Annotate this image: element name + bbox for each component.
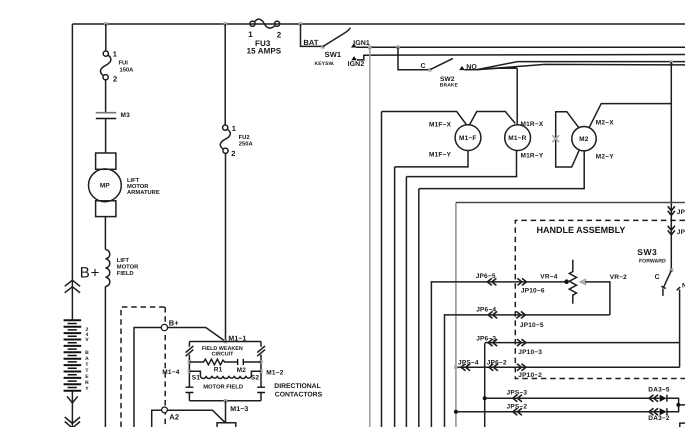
inductor MOTOR FIELD with S1 S2 terminals: [189, 371, 261, 378]
svg-text:FU2: FU2: [239, 134, 250, 141]
svg-text:M2: M2: [579, 136, 589, 143]
off-page connector chevrons on left rail: [65, 280, 80, 293]
svg-text:DA3−5: DA3−5: [648, 387, 670, 394]
resistor R1: [189, 359, 237, 365]
svg-text:15 AMPS: 15 AMPS: [247, 46, 282, 55]
node: dot R1 branch right: [259, 360, 263, 364]
svg-text:FORWARD: FORWARD: [639, 258, 666, 264]
wire: SW2 feed from IGN1 line: [398, 47, 430, 70]
svg-text:M1−F: M1−F: [459, 135, 477, 142]
wire: corner1 vertical to bottom edge: [381, 112, 383, 427]
svg-text:FUI: FUI: [119, 61, 129, 67]
svg-text:DA3−2: DA3−2: [648, 415, 670, 422]
switch SW3 NO contact: [677, 287, 681, 367]
wire: A2 node feed left corner: [152, 410, 162, 427]
fuse FU2 250A: [223, 125, 228, 130]
svg-text:IGN1: IGN1: [353, 40, 370, 47]
svg-text:JP10−3: JP10−3: [518, 349, 542, 356]
wire: rail below battery: [71, 391, 73, 427]
motor MP lift motor armature (brush boxes and body): [96, 153, 116, 169]
box: component at bottom edge (clipped): [217, 423, 236, 427]
contact M2 (in field weaken branch): [238, 359, 244, 365]
node: junction dot FUI tap: [104, 22, 108, 26]
svg-text:S1: S1: [192, 374, 201, 381]
node: B+ terminal circle: [161, 324, 167, 330]
svg-text:CONTACTORS: CONTACTORS: [275, 392, 323, 399]
connector JP6-5 chevron: [487, 278, 496, 285]
svg-text:LIFT: LIFT: [117, 258, 130, 264]
contact M1-2 slashes (right top): [257, 346, 265, 356]
fuse FU3 15 AMPS (on top bus): [250, 21, 255, 26]
connector JP6-3 chevron: [488, 339, 497, 346]
svg-text:M1F−Y: M1F−Y: [429, 152, 452, 159]
connector JP6-4 chevron: [488, 311, 497, 318]
svg-text:SW1: SW1: [325, 50, 342, 59]
contact M1-3 bars (right bottom): [257, 387, 265, 392]
svg-text:1: 1: [232, 124, 236, 133]
svg-text:150A: 150A: [120, 67, 135, 74]
node: black dot VR-4 junction: [564, 279, 569, 284]
wire: diode common stub to right edge: [679, 404, 685, 406]
svg-text:MOTOR: MOTOR: [117, 264, 139, 271]
svg-text:C: C: [421, 63, 426, 70]
svg-text:250A: 250A: [239, 141, 254, 148]
wire: FUI to M3 contact: [105, 80, 107, 112]
wire: FU2 down to field weaken circuit: [225, 153, 227, 341]
wire: corner3 vertical to bottom edge: [405, 177, 407, 427]
label 24V (vertical): [85, 327, 89, 343]
node: dot right bus to JP drop: [670, 60, 674, 64]
node: dot IGN1 / gray drop: [368, 45, 372, 49]
wire: BAT feed from top bus to SW1: [301, 24, 323, 46]
node: A2 terminal circle: [162, 407, 168, 413]
connector JP10-3 chevron: [517, 339, 526, 346]
dashed box HANDLE ASSEMBLY: [515, 220, 685, 378]
node: dot IGN1 / SW2 drop: [396, 45, 400, 49]
node: junction dot FU2 tap: [223, 22, 227, 26]
svg-text:M2−Y: M2−Y: [596, 154, 614, 161]
wire: NO fan line 2 to right edge: [477, 64, 685, 69]
connector DA3-2 chevron: [649, 408, 658, 415]
wire: M2 X wing up to right drop: [589, 104, 672, 129]
wire: DA3-5 to common: [667, 398, 679, 412]
svg-text:M1−R: M1−R: [508, 135, 526, 142]
svg-text:M2: M2: [237, 367, 247, 374]
contact M3 (pump contactor): [96, 112, 116, 114]
svg-text:M1R−Y: M1R−Y: [521, 153, 544, 160]
wire: NO fan line 1 to right edge: [465, 62, 685, 70]
wiper arrow VR-2: [579, 279, 586, 285]
svg-text:JP6−5: JP6−5: [476, 273, 496, 280]
wire: corner5 horizontal to right edge: [456, 202, 685, 204]
connector JP6-2 chevron: [489, 364, 498, 371]
battery BT1 24V (plates): [64, 320, 82, 390]
svg-text:1: 1: [248, 30, 253, 39]
svg-text:MP: MP: [100, 183, 111, 190]
arrowhead on battery negative lead: [67, 396, 78, 403]
node: black dot JPS-2 tap: [454, 410, 458, 414]
terminal triangle IGN2: [351, 56, 357, 60]
wire: main top bus B+ rail: [72, 23, 685, 25]
svg-text:B+: B+: [169, 319, 180, 328]
svg-text:2: 2: [231, 149, 235, 158]
wire: corner5 gray wire to right edge and bottom edge: [455, 203, 457, 427]
wire: M1-R Y lead down then left (corner3): [406, 150, 516, 176]
svg-text:M2−X: M2−X: [596, 120, 614, 127]
off-page connector chevrons bottom of battery rail: [65, 417, 80, 427]
svg-text:JPS−2: JPS−2: [507, 404, 528, 411]
wire: IGN2 line to right edge: [357, 55, 685, 60]
svg-text:A2: A2: [169, 413, 179, 422]
switch SW2 blade: [431, 58, 453, 69]
wire: JP6-5 / JP10-6 line (corner to VR-4): [431, 282, 564, 427]
connector JPS-4 chevron: [461, 364, 470, 371]
svg-text:VR−4: VR−4: [540, 274, 557, 281]
switch SW3 FORWARD common dot: [670, 268, 674, 272]
node: dot S1: [188, 370, 192, 374]
svg-text:V: V: [85, 337, 89, 343]
svg-text:SW3: SW3: [637, 247, 657, 257]
svg-text:IGN2: IGN2: [348, 61, 365, 68]
svg-text:DIRECTIONAL: DIRECTIONAL: [274, 383, 320, 390]
wire: M2 Y lead down then left (corner4): [419, 151, 584, 189]
svg-text:MOTOR: MOTOR: [127, 183, 149, 190]
svg-text:LIFT: LIFT: [127, 178, 140, 184]
node: black dot diode common: [676, 403, 680, 407]
svg-text:JP10−5: JP10−5: [520, 322, 544, 329]
contactor coil M1-F: [455, 125, 481, 151]
connector JP10-5 chevron: [516, 311, 525, 318]
potentiometer VR (speed control): [569, 260, 576, 304]
svg-text:C: C: [655, 274, 660, 281]
connector JPS-3 chevron: [513, 395, 522, 402]
svg-text:JP6: JP6: [677, 209, 685, 216]
svg-text:BRAKE: BRAKE: [440, 82, 459, 88]
wire: JP6-2 / JP10-2 line: [456, 366, 680, 368]
diode DA3-5: [660, 395, 667, 402]
wire: corner4 vertical to bottom edge: [418, 189, 420, 427]
dashed connector boundary box (left): [121, 307, 165, 427]
wire: motor to field inductor: [104, 217, 106, 250]
svg-text:VR−2: VR−2: [610, 274, 627, 281]
node: dot R1 branch left: [188, 360, 192, 364]
svg-text:M1−3: M1−3: [230, 406, 248, 413]
svg-text:JPS−4: JPS−4: [458, 360, 479, 367]
connector JPS-2 chevron: [513, 408, 522, 415]
wire: JP6-3 / JP10-3 line to SW3 NO: [485, 343, 680, 427]
svg-text:M1−2: M1−2: [266, 369, 283, 376]
node: dot SW2 pivot: [428, 68, 432, 72]
connector JP6-1 chevron on right drop: [668, 206, 675, 215]
wire: JPS-3 line: [485, 397, 660, 399]
node: dot S2: [259, 370, 263, 374]
wire: M2 left bracket: [556, 112, 580, 167]
contact M1-4 bars (left bottom): [186, 387, 194, 392]
wire: FU2 branch from top bus: [224, 24, 226, 125]
contactor coil M1-R: [505, 125, 531, 151]
contact M1-1 slashes (left top): [186, 346, 194, 356]
svg-text:FIELD: FIELD: [117, 271, 134, 277]
svg-text:Y: Y: [85, 386, 89, 392]
connector JP10-1 chevron on right drop: [668, 226, 675, 235]
switch SW1 KEYSW. pivot dot: [321, 45, 325, 49]
wire: B+ node to field weaken circuit: [168, 328, 226, 342]
node: dot bottom of field weaken box: [224, 399, 228, 403]
svg-text:CIRCUIT: CIRCUIT: [212, 352, 235, 358]
svg-text:BAT: BAT: [303, 38, 318, 47]
wire: IGN1 line to right edge: [356, 46, 685, 48]
wire: NO fan line 3 down to M1-R: [477, 68, 517, 125]
wire: corner2 vertical to bottom edge: [394, 167, 396, 427]
connector JP10-2 chevron: [517, 364, 526, 371]
svg-text:1: 1: [113, 49, 117, 58]
svg-text:JP10−2: JP10−2: [518, 372, 542, 379]
wire: gray vertical from IGN1 line to bottom edge: [369, 47, 371, 427]
fuse FUI 150A: [103, 51, 108, 56]
diode DA3-2: [660, 408, 667, 415]
wire: JPS-2 line: [456, 411, 660, 413]
wire: M3 to motor MP: [105, 119, 107, 153]
svg-text:S2: S2: [251, 374, 260, 381]
wire: M1-F X wing from corner1: [382, 112, 467, 126]
marker: gray X on M2 bracket: [552, 135, 559, 142]
wire: JP6-4 / JP10-5 line (corner to VR wiper drop): [445, 315, 610, 427]
node: gray dot JPS-4 tap: [454, 365, 458, 369]
wire: left battery rail down from top bus: [71, 24, 73, 320]
wire: right vertical drop from brake bus to SW3: [670, 62, 672, 270]
svg-text:HANDLE ASSEMBLY: HANDLE ASSEMBLY: [537, 225, 626, 235]
inductor LIFT MOTOR FIELD: [105, 250, 109, 287]
wire: A2 node to pump box: [167, 410, 225, 423]
wire: field weaken bottom down to pump box: [225, 401, 227, 423]
terminal triangle NO (SW2): [459, 66, 465, 70]
switch SW1 blade: [323, 28, 351, 47]
label BATTERY (vertical): [85, 350, 89, 392]
node: black dot JPS-3 tap: [483, 396, 487, 400]
svg-text:JPS−3: JPS−3: [507, 390, 528, 397]
svg-text:M1−4: M1−4: [162, 369, 179, 376]
wire: M1-F Y lead down then left (corner2): [395, 151, 468, 167]
svg-text:MOTOR FIELD: MOTOR FIELD: [203, 383, 243, 390]
wire: lift motor branch from top bus: [105, 24, 107, 51]
node: dot top of field weaken box: [224, 340, 228, 344]
box: field weaken circuit outline: [189, 342, 261, 401]
svg-text:JP6−4: JP6−4: [476, 307, 496, 314]
svg-text:2: 2: [277, 31, 282, 40]
svg-text:ARMATURE: ARMATURE: [127, 190, 160, 196]
wire: B+ node feed left corner: [134, 328, 161, 427]
wire: M1-F to M1-R X link: [469, 112, 515, 126]
node: junction dot SW1 BAT tap: [299, 22, 303, 26]
connector DA3-5 chevron: [649, 395, 658, 402]
svg-text:JP1: JP1: [677, 229, 685, 236]
contactor coil M2: [572, 127, 596, 151]
terminal triangle IGN1: [351, 43, 357, 47]
svg-text:KEYSW.: KEYSW.: [315, 61, 336, 67]
connector JP10-6 chevron: [517, 278, 526, 285]
svg-text:M1R−X: M1R−X: [521, 121, 544, 128]
box corner mark bottom right: [680, 423, 685, 427]
switch SW3 blade: [661, 271, 671, 296]
svg-text:JP6−3: JP6−3: [476, 336, 496, 343]
svg-text:2: 2: [113, 74, 117, 83]
svg-text:JP6−2: JP6−2: [487, 360, 507, 367]
wire: field inductor down to bottom edge: [104, 287, 106, 427]
svg-text:B+: B+: [80, 264, 100, 281]
svg-text:M1F−X: M1F−X: [429, 122, 452, 129]
svg-text:M3: M3: [121, 112, 131, 119]
svg-text:JP10−6: JP10−6: [521, 288, 545, 295]
svg-text:R1: R1: [214, 366, 223, 373]
